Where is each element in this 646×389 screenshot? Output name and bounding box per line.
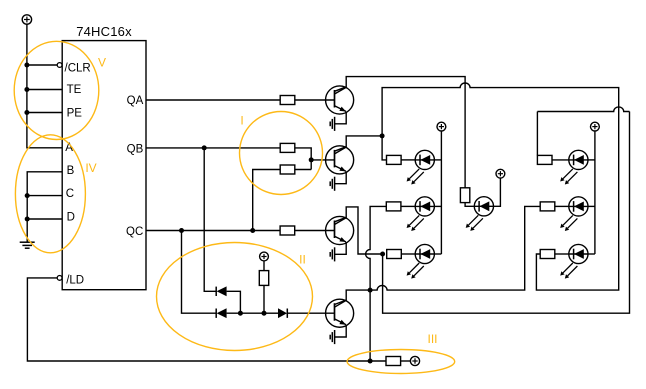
node dot /LD rail / Q4 collector	[368, 359, 373, 364]
transistor Q4	[326, 299, 354, 327]
node dot left row3	[380, 252, 385, 257]
wire R4 to node	[263, 285, 265, 313]
svg-text:TE: TE	[67, 84, 82, 96]
ground Q4 emitter	[330, 325, 346, 344]
power symbol + (center LED)	[496, 169, 505, 178]
svg-text:III: III	[427, 332, 437, 346]
annotation ellipse IV	[15, 135, 85, 253]
wire right anode bus	[594, 131, 596, 254]
annotation label I	[240, 114, 243, 128]
LED D7 (left bottom pip)	[407, 244, 435, 278]
resistor R11 (right row3)	[540, 250, 555, 259]
resistor R12 (III)	[386, 357, 401, 366]
wire LED4 to +	[494, 178, 501, 206]
wire R5 to LED1	[401, 159, 415, 161]
annotation label III	[427, 332, 437, 346]
wire D pin	[27, 218, 62, 220]
wire C pin	[27, 195, 62, 197]
wire TE pin	[27, 89, 62, 91]
wire Q4 collector to node	[335, 290, 371, 307]
resistor R7 (left row3)	[387, 250, 402, 259]
wire QC to R3	[146, 230, 280, 232]
svg-text:74HC16x: 74HC16x	[76, 24, 132, 39]
wire LED2 to bus	[434, 205, 441, 207]
wire Q4 node down to /LD rail	[369, 290, 371, 361]
wire QC branch down to D2	[182, 231, 217, 314]
wire /CLR pin	[27, 64, 57, 66]
power symbol +V (top left)	[22, 15, 31, 24]
wire D1 to diode node	[227, 291, 241, 313]
wire left anode bus	[440, 131, 442, 254]
annotation label V	[98, 56, 106, 70]
wire R8 to LED4	[465, 203, 474, 207]
diode D1	[216, 286, 226, 296]
wire LED7 to bus	[588, 253, 595, 255]
annotation ellipse V	[14, 41, 99, 139]
wire R10 to LED6	[555, 205, 569, 207]
wire ground bus B-C-D	[27, 172, 62, 242]
wire LED5 to bus	[588, 159, 595, 161]
svg-text:QC: QC	[126, 226, 143, 238]
svg-text:II: II	[299, 253, 306, 267]
ground Q3 emitter	[330, 242, 346, 261]
annotation ellipse I	[240, 112, 323, 195]
wire /LD to bottom rail	[27, 278, 386, 361]
wire LED3 to bus	[434, 253, 441, 255]
power symbol + (II pullup)	[260, 252, 269, 261]
resistor R10 (right row2)	[540, 202, 555, 211]
wire R1 to Q1 base	[295, 99, 335, 101]
ground Q2 emitter	[330, 171, 346, 190]
ground symbol (IC inputs)	[20, 242, 35, 248]
resistor R8 (center LED)	[460, 188, 469, 203]
node dot gnd/D	[25, 217, 30, 222]
resistor R6 (left row2)	[386, 202, 401, 211]
wire pullup + to R4	[263, 261, 265, 271]
pin label D	[67, 212, 75, 224]
transistor Q2	[326, 146, 354, 174]
node dot QC/D2 branch	[179, 228, 184, 233]
svg-text:/LD: /LD	[66, 275, 84, 287]
wire R2b right	[295, 169, 311, 171]
resistor R2b (diode net to Q2)	[280, 165, 295, 174]
transistor Q3	[326, 216, 354, 244]
wire LED1 to bus	[434, 159, 441, 161]
resistor R9 (right row1)	[537, 155, 552, 164]
wire node to D3	[264, 312, 278, 314]
wire R11 to LED7	[555, 253, 569, 255]
resistor R3	[280, 226, 295, 235]
svg-text:/CLR: /CLR	[65, 62, 91, 74]
LED D6 (left middle pip)	[407, 197, 435, 231]
resistor R5 (left row1)	[387, 155, 402, 164]
node dot +V//CLR	[24, 63, 29, 68]
transistor Q1	[326, 86, 354, 114]
node dot QC/R2b branch	[250, 228, 255, 233]
LED D9 (right middle pip)	[560, 197, 588, 231]
wire +V bus down to pin A	[27, 24, 62, 148]
wire Q2 base	[311, 159, 334, 161]
power symbol + (III)	[410, 356, 419, 365]
power symbol + (left bank)	[437, 122, 446, 131]
wire Q4 net to right row2 (hop)	[370, 206, 540, 290]
power symbol + (right bank)	[591, 122, 600, 131]
wire R6 to LED2	[401, 205, 415, 207]
wire R3 to Q3 base	[295, 230, 335, 232]
annotation ellipse II	[157, 243, 313, 351]
inversion bubble /LD	[57, 276, 62, 281]
wire Q3 collector dogleg to left row3	[335, 207, 383, 254]
wire Q3 net to right bank row1 (via top)	[383, 112, 630, 314]
resistor R1	[280, 96, 295, 105]
node dot +V/TE	[24, 87, 29, 92]
pin label A	[65, 142, 73, 154]
wire line C with hop	[537, 107, 629, 112]
svg-text:QA: QA	[127, 95, 144, 107]
pin label C	[66, 188, 74, 200]
resistor R4 (pullup)	[259, 271, 268, 286]
annotation ellipse III	[347, 350, 455, 374]
node dot +V/PE	[24, 110, 29, 115]
wire R7 to LED3	[401, 253, 415, 255]
wire line C down to right row1 resistor	[536, 112, 538, 156]
wire QB branch down to D1	[204, 148, 216, 291]
IC U1 label 74HC16x	[76, 24, 132, 39]
pin label QB	[127, 143, 144, 155]
wire LED6 to bus	[588, 205, 595, 207]
wire D3 to Q4 base	[287, 312, 334, 314]
svg-text:D: D	[67, 212, 75, 224]
ground Q1 emitter	[330, 112, 346, 131]
wire QB to R2	[146, 147, 280, 149]
annotation label II	[299, 253, 306, 267]
annotation label IV	[85, 161, 96, 175]
svg-text:I: I	[240, 114, 243, 128]
pin label PE	[67, 107, 83, 119]
node dot Q4 collector	[368, 288, 373, 293]
wire QA to R1	[146, 99, 280, 101]
LED D10 (right bottom pip)	[560, 244, 588, 278]
pin label TE	[67, 84, 82, 96]
node dot Q2 collector	[380, 133, 385, 138]
wire PE pin	[27, 112, 62, 114]
wire R9 to LED5	[552, 159, 569, 161]
pin label B	[67, 165, 75, 177]
wire Q2 collector to row1 node	[335, 136, 383, 154]
resistor R2	[280, 143, 295, 152]
IC U1 74HC16x body	[62, 41, 146, 290]
inversion bubble /CLR	[57, 63, 62, 68]
LED D4 (center pip)	[466, 197, 494, 231]
wire left row2 riser (hop)	[366, 206, 387, 290]
LED D5 (left top pip)	[407, 150, 435, 184]
pin label QC	[126, 226, 143, 238]
svg-text:PE: PE	[67, 107, 83, 119]
LED D8 (right top pip)	[560, 150, 588, 184]
diode D2	[216, 308, 226, 318]
node dot D1/D2	[238, 311, 243, 316]
pin label QA	[127, 95, 144, 107]
pin label /CLR	[65, 62, 91, 74]
wire R2b left to QC	[253, 170, 281, 231]
pin label /LD	[66, 275, 84, 287]
node dot pullup	[262, 311, 267, 316]
wire Q2 net up over to right bank row3	[382, 83, 619, 290]
svg-text:QB: QB	[127, 143, 144, 155]
wire R12 to +	[401, 360, 411, 362]
svg-text:V: V	[98, 56, 106, 70]
svg-text:C: C	[66, 188, 74, 200]
wire Q1 collector to center LED resistor	[335, 77, 466, 188]
diode D3	[278, 308, 287, 318]
node dot Q2 base	[309, 157, 314, 162]
svg-text:B: B	[67, 165, 75, 177]
wire D2 anode to node	[227, 312, 264, 314]
svg-text:IV: IV	[85, 161, 96, 175]
node dot gnd/C	[25, 193, 30, 198]
node dot QB branch	[202, 145, 207, 150]
wire R2 to Q2 base node	[295, 148, 311, 170]
wire Q2 net down to left row1 resistor	[382, 136, 386, 160]
